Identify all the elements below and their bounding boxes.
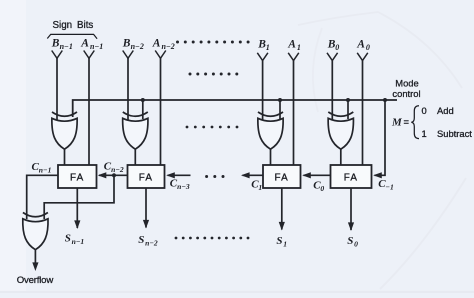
label A_n-2 xyxy=(152,38,175,52)
svg-text:0: 0 xyxy=(320,184,324,193)
wire XOR output U3 to FA xyxy=(270,149,272,165)
arrowhead C_0 xyxy=(302,172,311,178)
XOR gate U1 (bit n-1) xyxy=(52,112,77,149)
wire XOR output U4 to FA xyxy=(340,149,342,165)
wire C_0 into FA bit1 xyxy=(304,174,331,176)
svg-text:A: A xyxy=(152,38,161,50)
wire C_-1 from mode line into FA bit0 xyxy=(375,100,386,175)
wire sum output S_1 xyxy=(281,188,283,230)
wire C_n-2 into FA n-1 xyxy=(99,174,128,176)
junction on mode line at XOR 3 xyxy=(346,98,350,102)
wire input A_n-2 xyxy=(160,58,162,165)
wire input A_0 xyxy=(362,60,364,165)
input arrowhead A_n-1 xyxy=(84,51,95,59)
arrowhead S_1 xyxy=(279,222,285,231)
junction C_n-2 tap xyxy=(112,173,116,177)
svg-text:1: 1 xyxy=(283,240,287,249)
wire sum output S_n-1 xyxy=(76,188,78,228)
overbrace for sign bits xyxy=(47,34,97,38)
label M = xyxy=(391,116,410,129)
svg-text:1: 1 xyxy=(266,43,270,52)
wire input B_n-2 xyxy=(127,58,129,120)
brace for mode values xyxy=(411,106,419,139)
svg-text:n−2: n−2 xyxy=(131,42,144,51)
svg-text:control: control xyxy=(392,88,420,99)
label B_n-1 xyxy=(51,38,73,52)
label S_0 xyxy=(347,235,358,249)
label C_n-2 xyxy=(104,161,124,175)
input arrowhead A_n-2 xyxy=(155,51,166,59)
XOR gate U4 (bit 0) xyxy=(328,112,353,149)
svg-text:1: 1 xyxy=(258,183,262,192)
arrowhead S_n-2 xyxy=(143,220,149,229)
wire mode-control bus xyxy=(73,100,397,117)
wire mode stub to XOR 3 xyxy=(347,100,349,119)
XOR gate overflow detector xyxy=(23,213,48,250)
wire input A_n-1 xyxy=(88,58,90,165)
label 1 Subtract xyxy=(422,128,473,139)
label A_1 xyxy=(287,39,301,53)
svg-text:1: 1 xyxy=(297,43,301,52)
svg-text:n−1: n−1 xyxy=(39,166,52,175)
input arrowhead A_0 xyxy=(357,53,368,61)
junction on mode line at XOR 1 xyxy=(141,98,145,102)
full adder FA bit n-2 xyxy=(128,165,165,188)
svg-text:S: S xyxy=(347,235,353,247)
ellipsis dots XOR row xyxy=(186,126,239,129)
ellipsis dots sum row xyxy=(175,237,250,240)
svg-text:FA: FA xyxy=(70,173,84,184)
wire C_1 out of FA bit1 xyxy=(243,174,264,176)
label B_n-2 xyxy=(122,38,144,52)
arrowhead C_n-3 xyxy=(166,172,175,178)
full adder FA bit 1 xyxy=(263,165,301,188)
svg-text:Bits: Bits xyxy=(77,20,93,31)
svg-text:0: 0 xyxy=(335,43,339,52)
label A_n-1 xyxy=(80,38,103,52)
svg-text:A: A xyxy=(287,39,296,51)
label A_0 xyxy=(356,39,370,53)
wire XOR output U1 to FA xyxy=(64,149,66,165)
svg-text:1: 1 xyxy=(422,128,427,139)
wire input B_0 xyxy=(331,60,333,120)
svg-text:Mode: Mode xyxy=(395,78,418,89)
label C_n-3 xyxy=(170,178,190,192)
svg-text:n−2: n−2 xyxy=(111,165,124,174)
svg-text:−1: −1 xyxy=(385,183,394,192)
input arrowhead A_1 xyxy=(288,53,299,61)
svg-text:n−2: n−2 xyxy=(145,239,158,248)
input arrowhead B_0 xyxy=(327,53,338,61)
svg-text:n−1: n−1 xyxy=(60,42,73,51)
label C_0 xyxy=(313,180,324,194)
ellipsis dots carry row xyxy=(205,175,224,178)
arrowhead C_n-2 into FA n-1 xyxy=(98,172,107,178)
wire XOR output U2 to FA xyxy=(134,149,136,165)
arrowhead C_1 xyxy=(241,172,250,178)
label C_-1 xyxy=(378,178,394,192)
svg-text:Subtract: Subtract xyxy=(437,128,472,139)
svg-text:A: A xyxy=(356,39,365,51)
arrowhead overflow output xyxy=(32,262,38,271)
ellipsis dots top input row xyxy=(176,41,250,44)
wire sum output S_n-2 xyxy=(145,188,147,228)
svg-text:S: S xyxy=(138,234,144,246)
XOR gate U2 (bit n-2) xyxy=(123,112,148,149)
svg-text:FA: FA xyxy=(344,173,358,184)
svg-text:S: S xyxy=(65,233,71,245)
svg-text:0: 0 xyxy=(366,43,370,52)
svg-text:0: 0 xyxy=(422,105,427,116)
wire input B_n-1 xyxy=(56,58,58,120)
wire input A_1 xyxy=(293,60,295,165)
label B_1 xyxy=(257,39,270,53)
arrowhead S_n-1 xyxy=(74,220,80,229)
junction mode line to C-1 xyxy=(383,98,387,102)
svg-text:n−2: n−2 xyxy=(162,42,175,51)
svg-text:A: A xyxy=(80,38,89,50)
wire mode stub to XOR 1 xyxy=(142,100,144,119)
XOR gate U3 (bit 1) xyxy=(258,112,283,149)
wire overflow output xyxy=(34,250,36,263)
label S_n-1 xyxy=(65,233,85,247)
svg-text:n−1: n−1 xyxy=(72,237,85,246)
svg-text:M: M xyxy=(391,117,403,129)
label "Sign Bits" xyxy=(53,20,94,31)
junction on mode line at XOR 2 xyxy=(278,98,282,102)
input arrowhead B_n-2 xyxy=(123,51,134,59)
wire sum output S_0 xyxy=(350,188,352,230)
wire C_n-2 tap to overflow XOR xyxy=(44,175,114,219)
svg-text:=: = xyxy=(404,116,410,127)
input arrowhead B_1 xyxy=(257,53,268,61)
svg-text:Sign: Sign xyxy=(53,20,73,31)
full adder FA bit n-1 xyxy=(58,165,97,188)
svg-text:Add: Add xyxy=(437,105,454,116)
svg-text:B: B xyxy=(51,38,60,50)
label "Mode control" xyxy=(392,78,420,100)
svg-text:Overflow: Overflow xyxy=(17,275,54,286)
wire C_n-3 into FA n-2 xyxy=(168,174,191,176)
svg-text:S: S xyxy=(276,235,282,247)
svg-text:0: 0 xyxy=(354,240,358,249)
wire mode stub to XOR 2 xyxy=(279,100,281,119)
arrowhead S_0 xyxy=(348,222,354,231)
svg-text:FA: FA xyxy=(275,173,289,184)
svg-text:FA: FA xyxy=(139,173,153,184)
full adder FA bit 0 xyxy=(331,165,372,188)
label 0 Add xyxy=(422,105,454,116)
label S_1 xyxy=(276,235,287,249)
label C_1 xyxy=(251,179,262,193)
input arrowhead B_n-1 xyxy=(52,51,63,59)
svg-text:n−1: n−1 xyxy=(90,42,103,51)
svg-text:B: B xyxy=(122,38,131,50)
label S_n-2 xyxy=(138,234,158,248)
label C_n-1 xyxy=(32,161,52,175)
svg-text:n−3: n−3 xyxy=(177,182,190,191)
ellipsis dots second row xyxy=(189,73,239,76)
wire input B_1 xyxy=(262,60,264,120)
label B_0 xyxy=(327,39,340,53)
arrowhead C_-1 xyxy=(373,172,382,178)
wire C_n-1 from FA to overflow XOR xyxy=(27,175,58,219)
